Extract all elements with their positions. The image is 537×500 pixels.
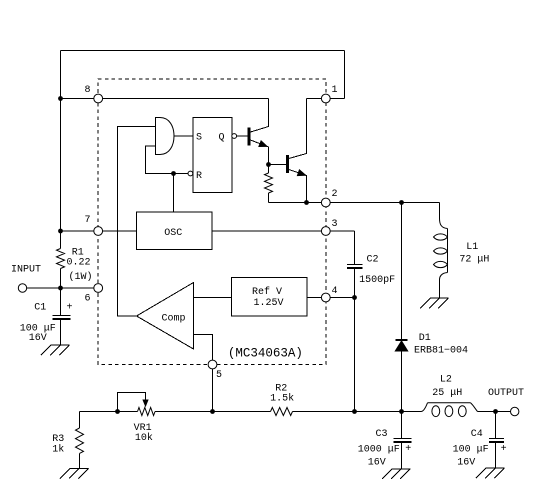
svg-text:C1: C1 — [34, 303, 46, 314]
wire: C2 bottom lead to pin 4 node — [354, 268, 356, 298]
junction: Q1 emitter / Q2 base — [266, 162, 271, 167]
junction: Q2 emitter / pin 2 row — [304, 200, 309, 205]
svg-text:+: + — [405, 444, 411, 455]
ground under C3 — [382, 469, 410, 479]
wire: comparator output up to AND gate top input — [118, 127, 156, 317]
resistor R3 1k body — [76, 428, 84, 453]
AND gate (internal) — [156, 118, 175, 155]
resistor R1 0.22 ohm 1W body — [57, 249, 65, 269]
diode D1 triangle — [395, 341, 407, 351]
svg-text:+: + — [67, 303, 73, 314]
wire: C4 bottom lead to ground — [495, 442, 497, 468]
wire: input terminal to pin 6 — [27, 287, 99, 289]
wire: Q2 base horizontal — [269, 164, 287, 166]
ground under C4 — [476, 468, 504, 478]
svg-text:S: S — [196, 133, 202, 144]
svg-text:5: 5 — [216, 370, 222, 381]
svg-text:72 μH: 72 μH — [459, 255, 489, 266]
svg-text:7: 7 — [85, 215, 91, 226]
ground under C1 — [41, 345, 69, 355]
svg-text:R: R — [196, 171, 202, 182]
junction: input / R1 / C1 / pin 6 node — [58, 286, 63, 291]
wire: Q1 collector up to pin 8 rail — [251, 99, 269, 133]
diode D1 ERB81-004 cathode bar — [396, 339, 408, 341]
wire: C3 top lead — [401, 412, 403, 440]
wire: Q-bar bubble to Q1 base — [237, 135, 248, 137]
resistor: Q1 emitter resistor body (internal, unlabeled) — [265, 173, 273, 193]
pin 4 circle — [321, 293, 330, 302]
capacitor C2 1500pF plates — [347, 264, 363, 266]
junction: C2 branch / bottom rail — [352, 409, 357, 414]
potentiometer VR1 wiper bracket — [118, 393, 146, 412]
wire: left vertical rail (top rail down to R1 top) — [60, 51, 62, 249]
svg-text:L1: L1 — [466, 242, 478, 253]
svg-text:1000 μF: 1000 μF — [358, 445, 400, 456]
wire: L1 top lead — [439, 203, 441, 219]
S-R flip flop box U1 — [193, 118, 232, 193]
svg-text:1500pF: 1500pF — [359, 275, 395, 286]
pin 7 circle — [94, 227, 103, 236]
transistor Q2 emitter arrowhead — [297, 170, 305, 176]
capacitor C3 1000uF plates — [394, 438, 412, 440]
svg-text:R3: R3 — [52, 434, 64, 445]
svg-text:(1W): (1W) — [69, 271, 93, 283]
wire: Q2 emitter diagonal down to pin 2 row — [289, 170, 307, 203]
junction: left rail / pin 7 wire — [58, 229, 63, 234]
wire: C2 top lead — [354, 231, 356, 264]
wire: pin 8 row from left rail to Q1 collector corner — [61, 98, 269, 100]
ground under L1 — [420, 298, 448, 308]
svg-text:10k: 10k — [135, 432, 153, 444]
svg-text:4: 4 — [332, 286, 338, 297]
svg-text:ERB81−004: ERB81−004 — [414, 346, 468, 357]
Ref V 1.25V block box — [232, 278, 308, 317]
wire: AND gate bottom input to R node — [146, 146, 189, 174]
input terminal circle — [18, 284, 26, 292]
wire: pin 4 node down to bottom feedback rail — [354, 298, 356, 412]
wire: bottom rail, R3 corner to VR1 — [80, 411, 138, 413]
wire: Q2 base node down to emitter resistor — [268, 165, 270, 174]
junction: D1 / C3 / output rail — [399, 409, 404, 414]
wire: bottom rail, VR1 to R2 — [155, 411, 271, 413]
comparator Comp triangle — [137, 283, 194, 350]
wire: pin 7 row from left rail to OSC left edge — [61, 230, 137, 232]
svg-text:C3: C3 — [376, 429, 388, 440]
svg-text:1.25V: 1.25V — [254, 298, 284, 309]
svg-text:16V: 16V — [29, 333, 47, 344]
pin 2 circle — [321, 198, 330, 207]
svg-text:6: 6 — [85, 294, 91, 305]
capacitor C1 100uF plates — [53, 315, 71, 317]
flip flop Q output bubble — [232, 134, 237, 139]
wire: bottom rail, R2 to L2 — [293, 411, 422, 413]
wire: emitter resistor bottom to pin 2 row — [268, 193, 270, 203]
resistor R2 1.5k body — [271, 408, 293, 416]
svg-text:100 μF: 100 μF — [453, 445, 489, 456]
wire: Q2 collector up to pin 1 row — [289, 99, 307, 159]
junction: pin 5 / bottom rail — [210, 409, 215, 414]
transistor Q1 base bar — [248, 128, 251, 146]
transistor Q1 emitter arrowhead — [259, 141, 267, 147]
junction: VR1 wiper / bottom rail — [115, 409, 120, 414]
wire: comparator inverting input through pin 5 to bottom rail — [194, 335, 213, 412]
wire: Ref V output to pin 4 — [307, 297, 326, 299]
wire: C4 top lead — [495, 412, 497, 440]
wire: pin 2 row out to L1 corner — [269, 202, 440, 204]
wire: R node down to OSC top — [173, 174, 175, 213]
svg-text:L2: L2 — [440, 375, 452, 386]
transistor Q2 base bar — [286, 155, 289, 173]
wire: comparator noninverting input to Ref V — [194, 297, 232, 299]
inductor L2 25uH coil — [421, 403, 478, 412]
svg-text:Comp: Comp — [162, 314, 186, 325]
svg-text:C2: C2 — [367, 255, 379, 266]
pin 3 circle — [321, 227, 330, 236]
wire: pin 1 horizontal (Q2 collector corner through pin 1) — [307, 98, 345, 100]
svg-text:D1: D1 — [419, 333, 431, 344]
svg-text:OUTPUT: OUTPUT — [488, 388, 524, 399]
svg-text:C4: C4 — [471, 429, 483, 440]
wire: R3 bottom lead to ground — [79, 454, 81, 469]
wire: bottom rail, L2 to output terminal — [478, 411, 511, 413]
svg-text:1k: 1k — [52, 444, 64, 456]
output terminal circle — [511, 407, 519, 415]
svg-text:8: 8 — [85, 85, 91, 96]
svg-text:16V: 16V — [368, 458, 386, 469]
junction: pin 2 / L1 / D1 node — [399, 200, 404, 205]
pin 5 circle — [208, 360, 217, 369]
pin 6 circle — [94, 284, 103, 293]
svg-text:1: 1 — [332, 85, 338, 96]
flip flop R input bubble — [188, 171, 193, 176]
svg-text:OSC: OSC — [164, 228, 182, 239]
svg-text:25 μH: 25 μH — [432, 388, 462, 399]
junction: R input node — [171, 171, 176, 176]
potentiometer VR1 10k body — [138, 408, 156, 416]
OSC block box — [136, 212, 212, 250]
potentiometer VR1 wiper arrowhead — [143, 400, 148, 406]
wire: top rail from left vertical to right corner — [61, 50, 345, 52]
wire: R3 top lead — [79, 412, 81, 429]
wire: AND gate output to S input — [174, 135, 193, 137]
svg-text:Q: Q — [219, 133, 225, 144]
wire: pin 2 node down to D1 cathode — [401, 203, 403, 340]
wire: Q1 emitter diagonal and down to Q2 base node — [251, 140, 269, 165]
svg-text:+: + — [501, 444, 507, 455]
svg-text:Ref V: Ref V — [252, 286, 282, 298]
wire: top-right vertical down to pin 1 row — [344, 51, 346, 99]
wire: C1 top lead — [60, 288, 62, 316]
junction: pin 4 / C2 node — [352, 295, 357, 300]
junction: left rail / pin 8 wire — [58, 96, 63, 101]
svg-text:0.22: 0.22 — [67, 258, 91, 269]
svg-text:2: 2 — [332, 189, 338, 200]
pin 1 circle — [321, 94, 330, 103]
wire: C1 bottom lead to ground — [60, 319, 62, 345]
svg-text:16V: 16V — [457, 458, 475, 469]
svg-text:INPUT: INPUT — [11, 265, 41, 276]
wire: C3 bottom lead to ground — [401, 442, 403, 469]
wire: pin 4 to C2 node — [326, 297, 355, 299]
svg-text:(MC34063A): (MC34063A) — [228, 347, 303, 361]
pin 8 circle — [94, 94, 103, 103]
capacitor C4 100uF plates — [489, 438, 504, 440]
svg-text:3: 3 — [332, 219, 338, 230]
junction: C4 / output terminal — [493, 409, 498, 414]
wire: OSC output through pin 3 to C2 corner — [212, 230, 354, 232]
svg-text:1.5k: 1.5k — [270, 393, 294, 405]
inductor L1 72uH coil — [440, 219, 448, 298]
wire: left vertical rail (R1 bottom to input node) — [60, 269, 62, 289]
ground under R3 — [60, 468, 88, 478]
wire: D1 anode down to output rail node — [401, 351, 403, 412]
IC MC34063A dashed boundary box — [98, 79, 326, 365]
